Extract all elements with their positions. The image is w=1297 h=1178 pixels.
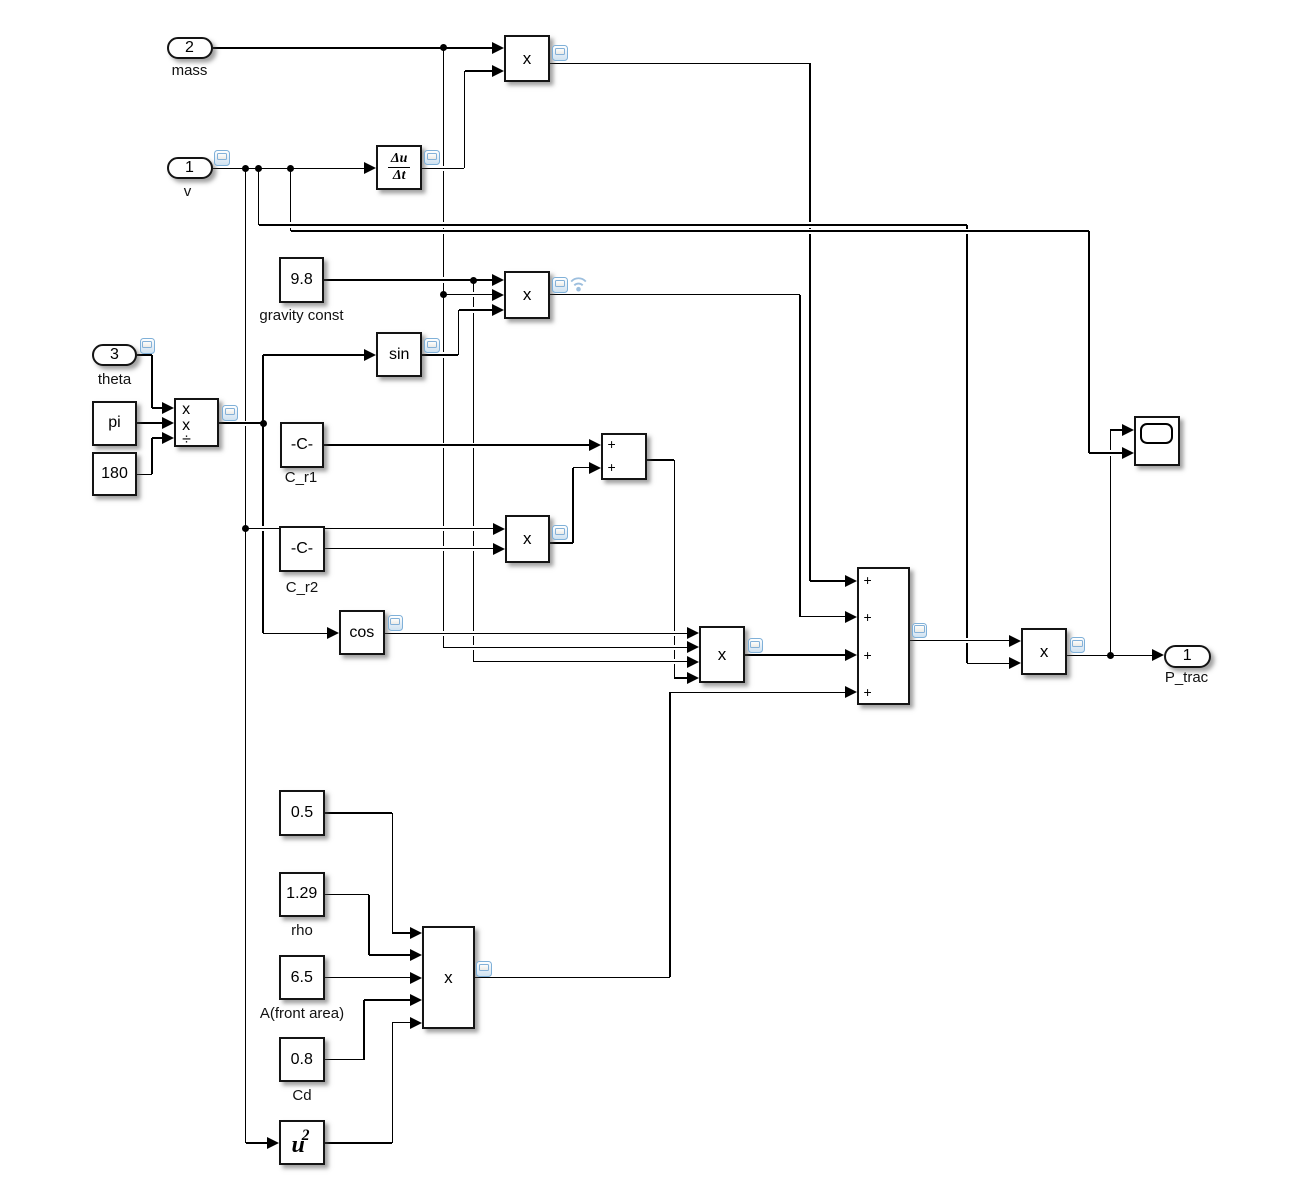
constant C_r1 — [280, 422, 324, 468]
input port In2 mass — [167, 37, 213, 59]
wire C_r1 to Add input 1 — [324, 444, 590, 446]
wire mass branch down to Product2 input 2 and Product4 input 2 — [443, 48, 445, 648]
wire u2 output to Product5 input 5 — [325, 1142, 393, 1144]
constant rho 1.29 — [279, 872, 326, 917]
product Product6 force x v power — [1021, 628, 1067, 675]
divide block Divide x x / — [174, 398, 219, 447]
logged signal wifi icon on Product2 output — [569, 274, 588, 293]
derivative block Du/Dt — [376, 145, 422, 191]
output port Out1 P_trac — [1164, 645, 1211, 668]
wire gravity const branch to Product4 input 3 — [473, 280, 475, 662]
label rho — [152, 923, 452, 940]
label A(front area) — [152, 1006, 452, 1023]
wire gravity const to Product2 input 1 — [324, 279, 492, 281]
wire Derivative output to Product1 input 2 — [422, 168, 464, 170]
label theta — [0, 372, 265, 389]
port value badge on Product3 — [552, 525, 568, 541]
port value badge on cos — [388, 615, 404, 631]
wire theta In3 to Divide input 1 — [137, 354, 152, 356]
wire 0.5 to Product5 input 1 — [325, 812, 392, 814]
constant 0.5 — [279, 790, 325, 835]
input port In3 theta — [92, 344, 137, 366]
port value badge on Add1 — [912, 623, 928, 639]
math function u squared — [279, 1120, 325, 1165]
port value badge on Divide — [222, 405, 238, 421]
wire Product1 output to Add1 input 1 — [550, 63, 810, 65]
input port In1 v — [167, 157, 213, 179]
wire C_r2 to Product input 2 — [325, 548, 494, 550]
label C_r2 — [152, 580, 452, 597]
port value badge on In3 theta — [140, 338, 156, 354]
product Product4 rolling force — [699, 626, 745, 683]
wire v In1 to Derivative input — [213, 168, 366, 170]
constant 180 — [92, 452, 137, 496]
label gravity const — [152, 308, 452, 325]
wire Product output to Add input 2 — [550, 542, 573, 544]
wire Product2 output to Add1 input 2 — [550, 294, 800, 296]
product Product2 m g sin — [504, 271, 550, 319]
trigonometric function sin — [376, 332, 422, 377]
label mass — [40, 63, 340, 80]
port value badge on In1 v — [214, 150, 230, 166]
wire A front area to Product5 input 3 — [325, 977, 411, 979]
wire pi to Divide input 2 — [137, 422, 163, 424]
constant C_r2 — [279, 526, 325, 572]
wire cos output to Product4 input 1 — [385, 633, 688, 635]
label P_trac — [1037, 670, 1297, 687]
wire v down to Product3 input 1 and u2 input — [245, 168, 247, 1143]
trigonometric function cos — [339, 610, 385, 656]
wire Product5 output to Add1 input 4 — [475, 977, 670, 979]
port value badge on Product5 — [476, 961, 492, 977]
label v — [38, 184, 338, 201]
product Product1 mass x accel — [504, 35, 549, 82]
wire mass In2 to Product1 input 1 — [213, 47, 494, 49]
port value badge on sin — [424, 338, 440, 354]
wire Cd to Product5 input 4 — [325, 1059, 364, 1061]
port value badge on Product2 — [552, 277, 568, 293]
wire crossing gaps — [442, 166, 444, 171]
wire 180 to Divide input 3 — [137, 474, 152, 476]
wire v to Product6 input 2 — [258, 168, 260, 225]
constant gravity const 9.8 — [279, 257, 324, 303]
product Product3 v Cr2 — [505, 515, 550, 563]
wire sin output to Product2 input 3 — [422, 354, 458, 356]
wire P_trac tap to Scope input 1 — [1110, 430, 1112, 655]
sum block Add1 total force — [857, 567, 910, 706]
constant Cd 0.8 — [279, 1037, 326, 1082]
port value badge on Product1 — [552, 45, 568, 61]
constant A front area 6.5 — [279, 955, 326, 1000]
wire rho to Product5 input 2 — [325, 894, 369, 896]
wire Product4 output to Add1 input 3 — [745, 654, 846, 656]
label C_r1 — [151, 470, 451, 487]
scope block Scope — [1134, 416, 1180, 466]
port value badge on Derivative — [424, 150, 440, 166]
wire Add output to Product4 input 4 — [647, 459, 675, 461]
wire Product6 output to Out1 P_trac — [1067, 655, 1153, 657]
product Product5 drag force — [422, 926, 475, 1029]
port value badge on Product4 — [748, 638, 764, 654]
label Cd — [152, 1088, 452, 1105]
wire v to Scope input 2 — [290, 168, 292, 231]
constant pi — [92, 401, 137, 446]
wire Divide output to sin and cos inputs — [219, 422, 263, 424]
sum block Add rolling resistance — [601, 433, 647, 480]
wire Add1 output to Product6 input 1 — [910, 640, 1011, 642]
port value badge on Product6 — [1070, 637, 1086, 653]
